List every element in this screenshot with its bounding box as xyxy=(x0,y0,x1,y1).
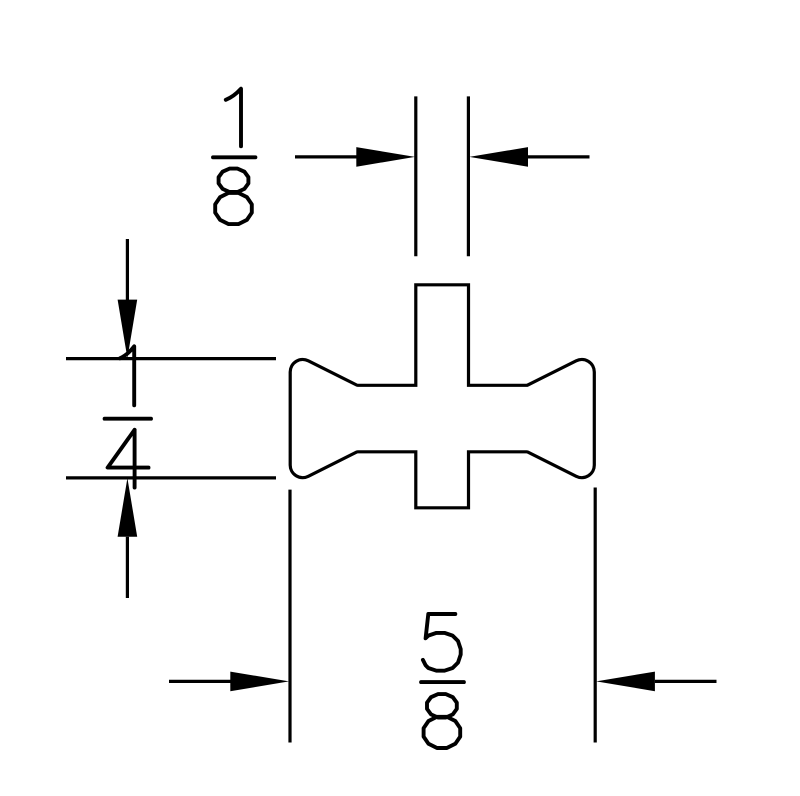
arrowhead left-pointing (1/8 right) xyxy=(469,147,528,167)
text 5/8 : numeral 5 xyxy=(423,614,461,671)
text 1/8 : numeral 8 bottom loop xyxy=(215,193,252,224)
extension line top (1/4 height dim) xyxy=(66,357,276,360)
text 1/8 : fraction bar xyxy=(213,155,255,159)
text 1/8 : numeral 1 xyxy=(226,89,241,147)
text 5/8 : numeral 8 top loop xyxy=(427,694,457,717)
dimension leader left (1/8) xyxy=(295,155,358,158)
dimension leader top (1/4) xyxy=(126,239,129,301)
text 1/4 : numeral 4 xyxy=(108,430,149,488)
extension line right (1/8 width dim) xyxy=(467,96,470,256)
dimension leader right (1/8) xyxy=(528,155,590,158)
dimension leader right (5/8) xyxy=(655,680,717,683)
dimension leader left (5/8) xyxy=(169,680,232,683)
text 1/4 : fraction bar xyxy=(105,417,151,421)
extension line left (1/8 width dim) xyxy=(414,96,417,256)
extension line right (5/8 width dim) xyxy=(594,488,597,743)
text 5/8 : numeral 8 bottom loop xyxy=(424,717,461,748)
arrowhead right-pointing (1/8 left) xyxy=(356,147,415,167)
dimension leader bottom (1/4) xyxy=(126,537,129,598)
text 1/8 : numeral 8 top loop xyxy=(219,169,249,192)
text 1/4 : numeral 1 xyxy=(120,346,134,405)
arrowhead up-pointing (1/4 bottom) xyxy=(118,478,138,537)
extension line left (5/8 width dim) xyxy=(288,490,291,743)
text 5/8 : fraction bar xyxy=(421,680,464,684)
extension line bottom (1/4 height dim) xyxy=(66,476,276,479)
profile outline (cross-section shape) xyxy=(290,285,594,508)
arrowhead left-pointing (5/8 right) xyxy=(596,672,655,692)
arrowhead down-pointing (1/4 top) xyxy=(118,300,138,359)
arrowhead right-pointing (5/8 left) xyxy=(230,672,289,692)
